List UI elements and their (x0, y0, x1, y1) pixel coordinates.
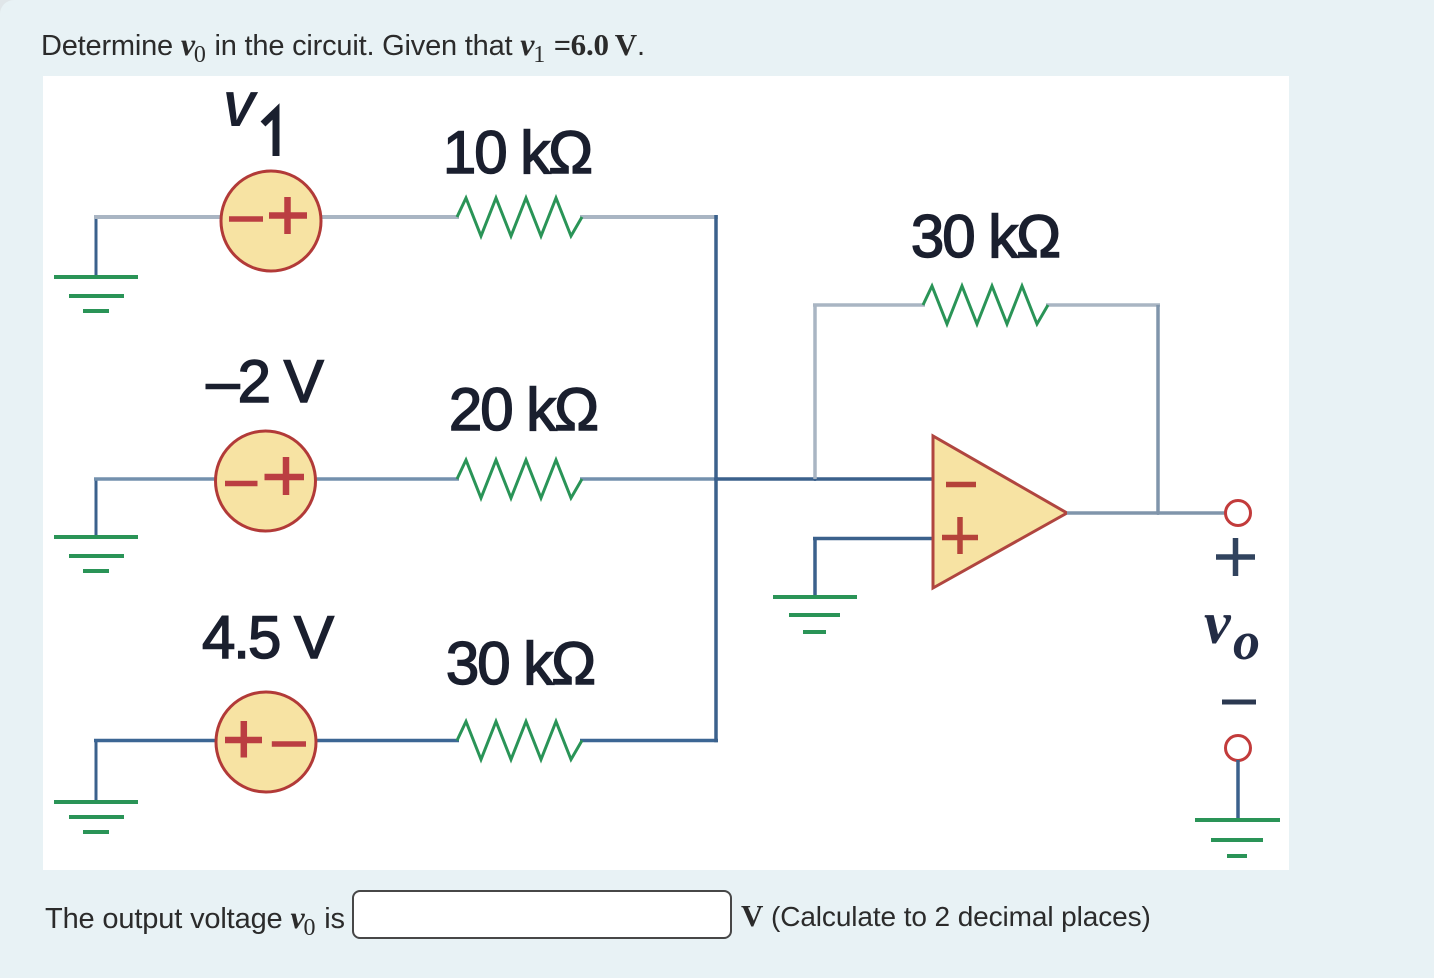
wire resistor R3 to bus (580, 739, 718, 743)
svg-text:30 kΩ: 30 kΩ (446, 630, 594, 697)
wire bottom terminal to ground (1236, 760, 1240, 820)
polarity plus (4.5V source) (225, 737, 262, 744)
ground for source 4.5V (54, 741, 138, 833)
circuit panel (43, 76, 1289, 870)
wire resistor R2 to bus (580, 477, 718, 481)
wire source V1 to resistor R1 (320, 215, 459, 219)
ground for op-amp non-inverting input (773, 597, 857, 632)
label vo (1204, 590, 1260, 671)
wire source 4.5V to resistor R3 (315, 739, 459, 743)
wire ground to source -2V (94, 477, 217, 481)
polarity plus (V1) (269, 212, 307, 219)
polarity minus (V1) (229, 216, 263, 222)
resistor R1 10k zigzag (457, 198, 582, 236)
wire bus to op-amp inverting input (716, 477, 933, 481)
resistor R3 30k zigzag (457, 722, 582, 760)
svg-text:–2 V: –2 V (206, 348, 323, 415)
junction: bus / inverting input node (714, 477, 718, 481)
feedback left vertical wire (813, 305, 817, 479)
svg-text:30 kΩ: 30 kΩ (911, 203, 1059, 270)
source V1 (221, 171, 321, 271)
label V1 (222, 83, 276, 156)
bus vertical wire (714, 215, 718, 742)
ground for source V1 (54, 217, 138, 311)
resistor R2 20k zigzag (457, 460, 582, 498)
output terminal top (1226, 501, 1251, 526)
wire ground to source 4.5V (94, 739, 217, 743)
ground for output (1195, 820, 1280, 856)
ground stub for non-inverting input (813, 539, 817, 598)
ground for source -2V (54, 479, 138, 571)
polarity minus (4.5V source) (272, 741, 306, 747)
wire resistor R1 to bus (580, 215, 718, 219)
svg-text:V: V (222, 83, 259, 137)
source -2V (216, 431, 316, 531)
junction: feedback / output node (1156, 511, 1160, 515)
junction: feedback tap on inverting input wire (813, 477, 817, 481)
wire source -2V to resistor R2 (315, 477, 459, 481)
svg-text:20 kΩ: 20 kΩ (449, 376, 597, 443)
svg-text:4.5 V: 4.5 V (202, 604, 334, 671)
wire ground to source V1 (94, 215, 222, 219)
feedback right vertical wire (1156, 305, 1160, 513)
svg-text:v: v (1204, 590, 1232, 656)
source 4.5V (216, 692, 316, 792)
output terminal bottom (1226, 736, 1251, 761)
polarity plus (-2V source) (265, 474, 305, 481)
svg-text:10 kΩ: 10 kΩ (443, 119, 591, 186)
non-inverting input mark (+) (942, 535, 978, 541)
answer row (0, 884, 1434, 954)
corner notch (0, 0, 18, 18)
prompt text (41, 26, 645, 63)
feedback resistor Rf 30k zigzag (923, 286, 1048, 324)
op-amp output wire (1067, 511, 1225, 515)
feedback top wire (813, 303, 1160, 307)
minus sign output (1222, 700, 1256, 705)
polarity minus (-2V source) (225, 481, 258, 487)
plus sign output (1216, 538, 1255, 576)
wire to non-inverting input (813, 537, 933, 541)
op-amp U1 (933, 436, 1067, 588)
inverting input mark (-) (946, 482, 976, 488)
svg-text:o: o (1233, 611, 1260, 671)
